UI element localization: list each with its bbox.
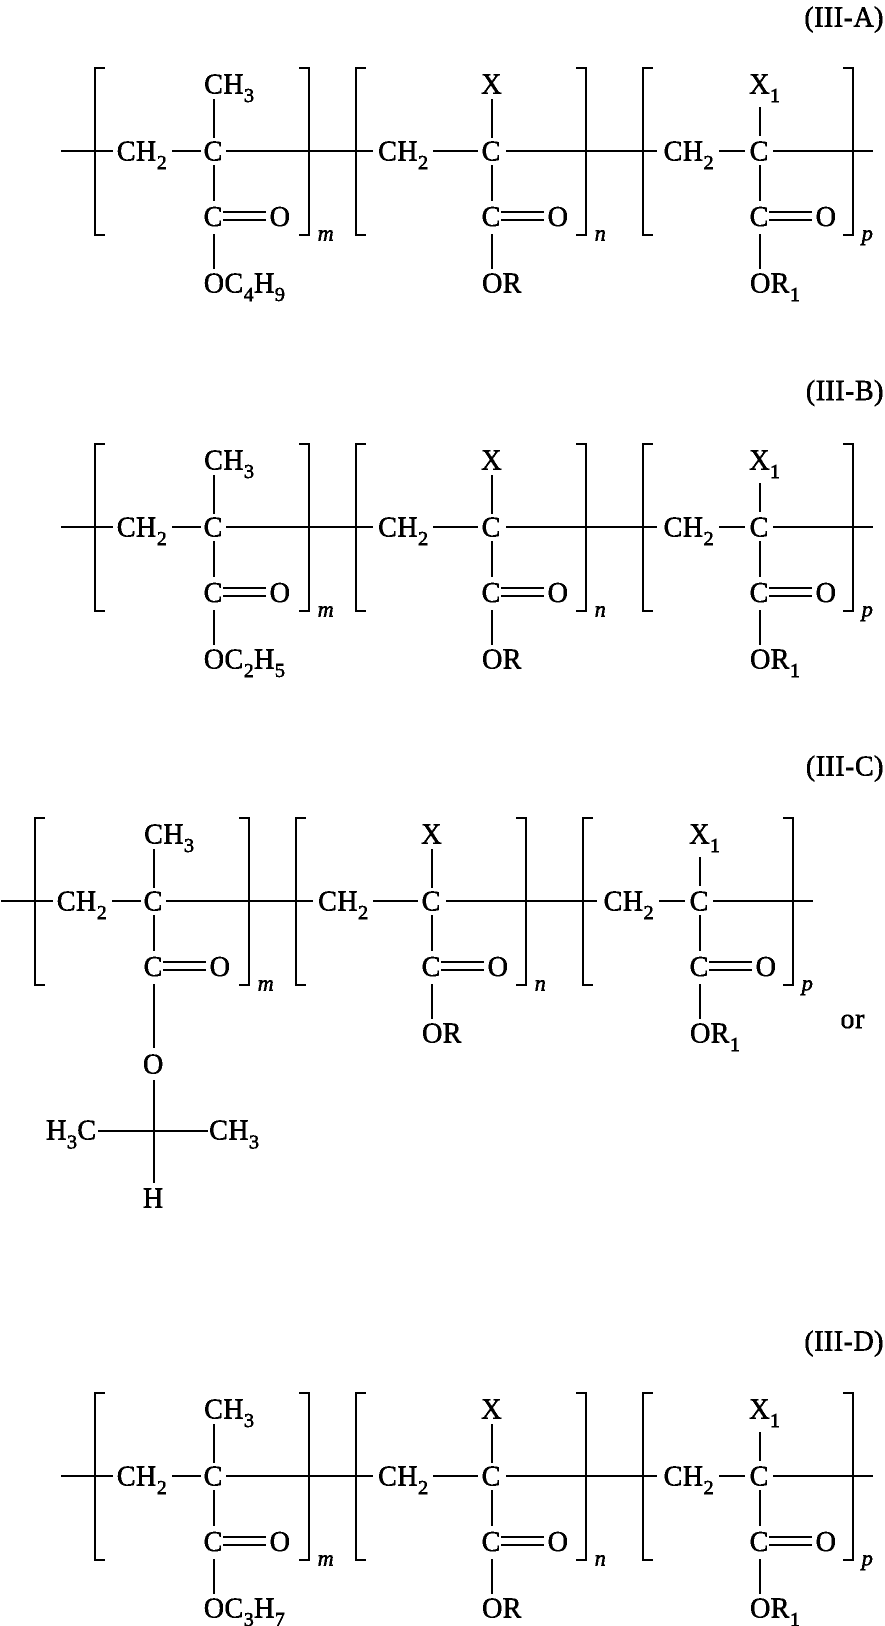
- svg-text:C: C: [690, 886, 709, 917]
- svg-text:O: O: [548, 578, 569, 609]
- bond C&#8211;C(=O) of unit 3 (III-B): [759, 541, 761, 577]
- bond C&#8211;C(=O) of unit 3 (III-D): [759, 1490, 761, 1526]
- svg-text:(III-C): (III-C): [806, 751, 884, 782]
- bond C&#8211;C(=O) of unit 1 (III-B): [213, 541, 215, 577]
- bond C&#8211;C(=O) of unit 2 (III-B): [491, 541, 493, 577]
- bond C(=O)&#8211;O of unit 3 (III-D): [759, 1559, 761, 1594]
- svg-text:OR: OR: [482, 269, 522, 300]
- svg-text:X: X: [481, 1394, 502, 1425]
- svg-text:C: C: [750, 136, 769, 167]
- svg-text:X: X: [421, 819, 442, 850]
- svg-text:n: n: [595, 220, 606, 245]
- svg-text:p: p: [860, 1545, 873, 1570]
- svg-text:m: m: [258, 970, 274, 995]
- repeat-unit 1 right bracket (III-A): [299, 68, 309, 235]
- svg-text:n: n: [595, 1545, 606, 1570]
- svg-text:C: C: [422, 886, 441, 917]
- repeat-unit 2 left bracket (III-C): [296, 818, 306, 985]
- svg-text:C: C: [204, 136, 223, 167]
- bond C(=O)&#8211;O of unit 3 (III-B): [759, 610, 761, 645]
- svg-text:O: O: [548, 1527, 569, 1558]
- bond CH2&#8211;C of unit 2 (III-A): [433, 150, 478, 152]
- bond O&#8211;CH(isopropyl) (III-C): [153, 1080, 155, 1131]
- bond CH2&#8211;C of unit 2 (III-D): [433, 1475, 478, 1477]
- bond C&#8211;C(=O) of unit 1 (III-A): [213, 165, 215, 201]
- svg-text:OR: OR: [482, 645, 522, 676]
- svg-text:n: n: [535, 970, 546, 995]
- svg-text:O: O: [548, 202, 569, 233]
- double bond C=O of unit 2 (III-B): [501, 588, 544, 596]
- repeat-unit 1 left bracket (III-D): [95, 1393, 105, 1560]
- bond C&#8211;C(=O) of unit 2 (III-A): [491, 165, 493, 201]
- backbone bond right of C, unit 3 (III-D): [773, 1475, 873, 1477]
- bond CH2&#8211;C of unit 2 (III-C): [373, 900, 418, 902]
- backbone bond right of C, unit 1 (III-C): [166, 900, 313, 902]
- repeat-unit 2 right bracket (III-A): [576, 68, 586, 235]
- repeat-unit 3 left bracket (III-C): [583, 818, 593, 985]
- bond X&#8211;C of unit 2 (III-D): [491, 1424, 493, 1463]
- bond CH2&#8211;C of unit 3 (III-D): [719, 1475, 745, 1477]
- double bond C=O of unit 2 (III-A): [501, 212, 544, 220]
- bond C&#8211;C(=O) of unit 3 (III-C): [699, 915, 701, 951]
- repeat-unit 1 left bracket (III-A): [95, 68, 105, 235]
- bond C(=O)&#8211;O of unit 2 (III-A): [491, 234, 493, 269]
- svg-text:C: C: [144, 886, 163, 917]
- svg-text:OR: OR: [422, 1019, 462, 1050]
- svg-text:O: O: [816, 202, 837, 233]
- repeat-unit 1 right bracket (III-D): [299, 1393, 309, 1560]
- svg-text:C: C: [482, 202, 501, 233]
- backbone bond right of C, unit 3 (III-B): [773, 526, 873, 528]
- backbone bond right of C, unit 1 (III-B): [226, 526, 373, 528]
- svg-text:C: C: [690, 952, 709, 983]
- svg-text:X: X: [481, 445, 502, 476]
- bond CH3&#8211;C of unit 1 (III-A): [213, 99, 215, 138]
- bond X&#8211;C of unit 2 (III-A): [491, 99, 493, 138]
- svg-text:C: C: [204, 202, 223, 233]
- double bond C=O of unit 2 (III-D): [501, 1537, 544, 1545]
- bond C&#8211;C(=O) of unit 2 (III-D): [491, 1490, 493, 1526]
- backbone bond right of C, unit 2 (III-C): [446, 900, 597, 902]
- bond CH2&#8211;C of unit 3 (III-C): [659, 900, 685, 902]
- bond CH2&#8211;C of unit 1 (III-D): [172, 1475, 201, 1477]
- bond C(=O)&#8211;O of unit 1 (III-A): [213, 234, 215, 269]
- repeat-unit 1 right bracket (III-B): [299, 444, 309, 611]
- repeat-unit 3 right bracket (III-B): [843, 444, 853, 611]
- svg-text:p: p: [860, 220, 873, 245]
- backbone bond right of C, unit 2 (III-B): [506, 526, 657, 528]
- bond C&#8211;C(=O) of unit 1 (III-D): [213, 1490, 215, 1526]
- backbone bond right of C, unit 3 (III-A): [773, 150, 873, 152]
- svg-text:O: O: [270, 578, 291, 609]
- double bond C=O of unit 1 (III-B): [223, 588, 266, 596]
- svg-text:C: C: [482, 578, 501, 609]
- svg-text:C: C: [204, 1461, 223, 1492]
- bond C(=O)&#8211;O of unit 1 (III-D): [213, 1559, 215, 1594]
- svg-text:O: O: [270, 1527, 291, 1558]
- bond C(=O)&#8211;O of unit 3 (III-C): [699, 984, 701, 1019]
- svg-text:OR: OR: [482, 1594, 522, 1625]
- backbone bond right of C, unit 3 (III-C): [713, 900, 813, 902]
- bond H3C&#8211;CH&#8211;CH3 horizontal (III-C): [98, 1130, 208, 1132]
- backbone bond: left chain stub (III-B): [61, 526, 113, 528]
- bond CH2&#8211;C of unit 1 (III-A): [172, 150, 201, 152]
- svg-text:C: C: [482, 136, 501, 167]
- bond CH2&#8211;C of unit 3 (III-A): [719, 150, 745, 152]
- backbone bond right of C, unit 2 (III-D): [506, 1475, 657, 1477]
- svg-text:n: n: [595, 596, 606, 621]
- svg-text:O: O: [210, 952, 231, 983]
- svg-text:C: C: [750, 512, 769, 543]
- backbone bond: left chain stub (III-C): [1, 900, 53, 902]
- svg-text:C: C: [422, 952, 441, 983]
- svg-text:C: C: [144, 952, 163, 983]
- svg-text:X: X: [481, 69, 502, 100]
- backbone bond: left chain stub (III-D): [61, 1475, 113, 1477]
- repeat-unit 3 right bracket (III-C): [783, 818, 793, 985]
- svg-text:(III-B): (III-B): [806, 376, 884, 407]
- backbone bond: left chain stub (III-A): [61, 150, 113, 152]
- svg-text:O: O: [270, 202, 291, 233]
- repeat-unit 1 left bracket (III-C): [35, 818, 45, 985]
- double bond C=O of unit 3 (III-C): [709, 962, 752, 970]
- repeat-unit 3 left bracket (III-D): [643, 1393, 653, 1560]
- bond C(=O)&#8211;O of unit 1 (III-B): [213, 610, 215, 645]
- double bond C=O of unit 3 (III-D): [769, 1537, 812, 1545]
- bond CH3&#8211;C of unit 1 (III-D): [213, 1424, 215, 1463]
- repeat-unit 2 left bracket (III-B): [356, 444, 366, 611]
- double bond C=O of unit 3 (III-B): [769, 588, 812, 596]
- svg-text:C: C: [750, 578, 769, 609]
- svg-text:C: C: [482, 1461, 501, 1492]
- repeat-unit 1 left bracket (III-B): [95, 444, 105, 611]
- bond X1&#8211;C of unit 3 (III-D): [759, 1432, 761, 1461]
- bond X1&#8211;C of unit 3 (III-C): [699, 857, 701, 886]
- svg-text:(III-D): (III-D): [804, 1326, 884, 1357]
- svg-text:C: C: [750, 1461, 769, 1492]
- bond CH2&#8211;C of unit 2 (III-B): [433, 526, 478, 528]
- double bond C=O of unit 1 (III-D): [223, 1537, 266, 1545]
- bond CH&#8211;H vertical (III-C): [153, 1131, 155, 1183]
- svg-text:O: O: [756, 952, 777, 983]
- svg-text:(III-A): (III-A): [804, 3, 884, 34]
- bond X&#8211;C of unit 2 (III-B): [491, 475, 493, 514]
- bond X1&#8211;C of unit 3 (III-B): [759, 483, 761, 512]
- bond CH2&#8211;C of unit 1 (III-B): [172, 526, 201, 528]
- double bond C=O of unit 1 (III-C): [163, 962, 206, 970]
- svg-text:C: C: [482, 512, 501, 543]
- double bond C=O of unit 2 (III-C): [441, 962, 484, 970]
- bond C(=O)&#8211;O ester linkage (III-C): [153, 984, 155, 1048]
- repeat-unit 1 right bracket (III-C): [239, 818, 249, 985]
- svg-text:m: m: [318, 1545, 334, 1570]
- bond X1&#8211;C of unit 3 (III-A): [759, 107, 761, 136]
- backbone bond right of C, unit 1 (III-A): [226, 150, 373, 152]
- backbone bond right of C, unit 2 (III-A): [506, 150, 657, 152]
- bond CH2&#8211;C of unit 3 (III-B): [719, 526, 745, 528]
- bond CH2&#8211;C of unit 1 (III-C): [112, 900, 141, 902]
- svg-text:m: m: [318, 220, 334, 245]
- repeat-unit 2 left bracket (III-A): [356, 68, 366, 235]
- repeat-unit 2 right bracket (III-C): [516, 818, 526, 985]
- double bond C=O of unit 3 (III-A): [769, 212, 812, 220]
- bond CH3&#8211;C of unit 1 (III-C): [153, 849, 155, 888]
- repeat-unit 3 right bracket (III-D): [843, 1393, 853, 1560]
- svg-text:O: O: [143, 1050, 164, 1081]
- backbone bond right of C, unit 1 (III-D): [226, 1475, 373, 1477]
- bond CH3&#8211;C of unit 1 (III-B): [213, 475, 215, 514]
- svg-text:C: C: [750, 202, 769, 233]
- bond C&#8211;C(=O) of unit 2 (III-C): [431, 915, 433, 951]
- svg-text:C: C: [482, 1527, 501, 1558]
- bond C(=O)&#8211;O of unit 2 (III-C): [431, 984, 433, 1019]
- bond C(=O)&#8211;O of unit 3 (III-A): [759, 234, 761, 269]
- svg-text:H: H: [143, 1183, 164, 1214]
- bond C(=O)&#8211;O of unit 2 (III-D): [491, 1559, 493, 1594]
- repeat-unit 3 left bracket (III-B): [643, 444, 653, 611]
- bond C&#8211;C(=O) of unit 1 (III-C): [153, 915, 155, 951]
- repeat-unit 2 right bracket (III-B): [576, 444, 586, 611]
- double bond C=O of unit 1 (III-A): [223, 212, 266, 220]
- svg-text:O: O: [816, 1527, 837, 1558]
- bond C&#8211;C(=O) of unit 3 (III-A): [759, 165, 761, 201]
- repeat-unit 2 right bracket (III-D): [576, 1393, 586, 1560]
- svg-text:p: p: [800, 970, 813, 995]
- repeat-unit 2 left bracket (III-D): [356, 1393, 366, 1560]
- bond C(=O)&#8211;O of unit 2 (III-B): [491, 610, 493, 645]
- svg-text:p: p: [860, 596, 873, 621]
- repeat-unit 3 right bracket (III-A): [843, 68, 853, 235]
- svg-text:C: C: [204, 1527, 223, 1558]
- svg-text:or: or: [841, 1004, 865, 1035]
- svg-text:C: C: [750, 1527, 769, 1558]
- svg-text:O: O: [816, 578, 837, 609]
- svg-text:C: C: [204, 578, 223, 609]
- svg-text:O: O: [488, 952, 509, 983]
- svg-text:m: m: [318, 596, 334, 621]
- svg-text:C: C: [204, 512, 223, 543]
- bond X&#8211;C of unit 2 (III-C): [431, 849, 433, 888]
- repeat-unit 3 left bracket (III-A): [643, 68, 653, 235]
